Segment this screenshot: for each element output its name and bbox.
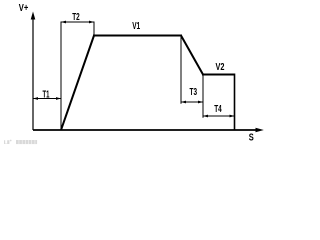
extension line at ramp start x=61 — [60, 22, 62, 131]
V axis arrowhead — [31, 12, 36, 20]
profile: final stop drop — [234, 74, 236, 131]
profile: deceleration ramp (V1 to V2) — [181, 36, 203, 75]
dimension line T4 — [203, 115, 235, 117]
svg-text:T2: T2 — [72, 12, 80, 23]
profile: V1 constant segment — [93, 35, 182, 37]
profile: V2 constant segment — [202, 74, 235, 76]
svg-text:V+: V+ — [19, 3, 29, 14]
S axis — [33, 129, 257, 131]
svg-text:S: S — [249, 133, 254, 144]
V axis — [32, 17, 34, 130]
S axis arrowhead — [256, 128, 264, 133]
svg-text:T4: T4 — [214, 104, 222, 115]
svg-text:T1: T1 — [43, 90, 50, 101]
dimension line T3 — [181, 101, 203, 103]
svg-text:V2: V2 — [216, 62, 225, 73]
dimension line T1 — [33, 98, 61, 100]
extension line at decel end x=203 — [202, 75, 204, 118]
dimension line T2 — [61, 21, 94, 23]
svg-text:T3: T3 — [190, 87, 198, 98]
profile: acceleration ramp (0 to V1) — [61, 36, 94, 131]
svg-text:V1: V1 — [132, 21, 140, 32]
extension line at decel start x=181 — [180, 36, 182, 104]
extension line at ramp top x=94 — [93, 22, 95, 36]
watermark logo bottom-left — [4, 140, 37, 145]
